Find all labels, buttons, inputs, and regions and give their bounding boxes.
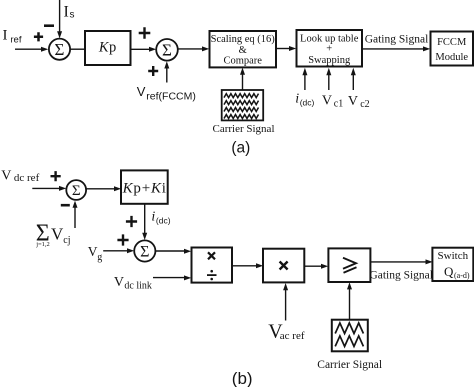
label plus above S2 (139, 27, 151, 39)
carrier a zigzag row 4 (224, 115, 259, 119)
svg-text:Scaling eq (16): Scaling eq (16) (211, 34, 276, 45)
wire KpKi-S4 arrowhead (142, 233, 147, 240)
wire carrier b to geq (349, 289, 351, 320)
svg-text:I: I (3, 28, 8, 44)
wire Kp to S2 (131, 48, 150, 50)
wire carrier-b arrowhead (347, 282, 352, 289)
svg-text:(dc): (dc) (156, 215, 171, 225)
carrier signal box b (332, 320, 368, 352)
svg-text:g: g (97, 252, 102, 263)
svg-text:Switch: Switch (438, 250, 469, 262)
label plus upper at S4 (126, 216, 137, 227)
svg-text:j=1,2: j=1,2 (35, 241, 50, 248)
svg-text:V: V (114, 275, 124, 290)
wire KpKi down to S4 (144, 204, 146, 234)
label minus at S1 (44, 24, 54, 27)
wire Vdcref arrowhead (59, 186, 66, 191)
svg-text:i: i (151, 209, 155, 224)
svg-text:(a): (a) (231, 140, 250, 157)
wire Iref arrowhead (41, 47, 48, 52)
multiply sign in multiplier (280, 262, 288, 270)
wire Vc1 input (328, 75, 330, 91)
svg-text:ref(FCCM): ref(FCCM) (146, 91, 196, 103)
wire lookup to FCCM gating signal (362, 48, 423, 50)
summing junction S4 (134, 240, 155, 261)
wire Vg arrowhead (127, 248, 134, 253)
wire idc input a (304, 75, 306, 91)
svg-text:dc ref: dc ref (14, 172, 40, 184)
svg-text:V: V (348, 94, 358, 109)
wire carrier-a arrowhead (240, 68, 245, 75)
wire Vdclink arrowhead (184, 275, 191, 280)
wire Vc2 input (352, 75, 354, 91)
wire scaling-lookup arrowhead (289, 46, 296, 51)
wire mul-geq arrowhead (321, 264, 328, 269)
svg-text:Kp: Kp (98, 40, 117, 56)
svg-text:c1: c1 (334, 99, 343, 110)
svg-text:ac ref: ac ref (280, 330, 305, 342)
wire Vacref arrowhead (283, 283, 288, 290)
svg-text:V: V (137, 84, 146, 99)
svg-text:c2: c2 (360, 99, 369, 110)
label plus below S2 (148, 66, 158, 76)
block FCCM module (431, 32, 474, 66)
carrier a zigzag row 2 (224, 101, 259, 105)
wire S2 to scaling block (178, 48, 203, 50)
block Kp+Ki (121, 170, 168, 203)
block multiplier (263, 249, 304, 283)
carrier b triangle row 2 (335, 336, 363, 347)
wire S4 to muldiv (156, 250, 185, 252)
wire Vref(FCCM) input (166, 68, 168, 83)
svg-text:V: V (1, 168, 11, 183)
svg-text:dc link: dc link (124, 280, 151, 291)
multiply sign in muldiv (208, 252, 215, 259)
wire Vc1 arrowhead (326, 68, 331, 75)
wire Vc2 arrowhead (351, 68, 356, 75)
block switch (432, 248, 473, 281)
wire S1 to Kp (70, 48, 85, 50)
svg-text:s: s (70, 10, 75, 21)
wire muldiv-mul arrowhead (256, 263, 263, 268)
svg-text:Swapping: Swapping (308, 55, 351, 66)
wire Vacref input (285, 290, 287, 321)
geq symbol (343, 258, 357, 273)
svg-text:Gating Signal: Gating Signal (369, 269, 433, 281)
wire Vref arrowhead (164, 61, 169, 68)
wire lookup-FCCM arrowhead (423, 46, 430, 51)
wire muldiv to mul (232, 265, 256, 267)
svg-text:Module: Module (435, 52, 468, 63)
svg-text:Gating Signal: Gating Signal (365, 33, 429, 45)
block multiply divide (192, 248, 233, 283)
svg-text:&: & (239, 45, 247, 56)
svg-text:Kp+Ki: Kp+Ki (122, 181, 167, 197)
wire Vg to S4 (103, 250, 127, 252)
wire S2-scaling arrowhead (202, 46, 209, 51)
wire S3-KpKi arrowhead (114, 186, 121, 191)
label plus at Vdcref (51, 171, 61, 181)
wire carrier a to scaling (242, 74, 244, 90)
wire Vdclink input (153, 277, 185, 279)
svg-text:i: i (295, 92, 299, 107)
svg-text:+: + (326, 44, 332, 55)
label plus at Iref (34, 32, 43, 41)
svg-text:V: V (322, 94, 332, 109)
wire scaling to lookup (276, 48, 289, 50)
block lookup table (297, 30, 363, 67)
summing junction S3 (66, 180, 86, 200)
svg-text:Carrier Signal: Carrier Signal (317, 359, 382, 371)
wire Iref input (15, 48, 42, 50)
wire geq-switch arrowhead (426, 259, 433, 264)
wire geq to switch gating signal (371, 261, 426, 263)
summing junction S2 (156, 39, 178, 61)
label plus lower at S4 (117, 234, 128, 245)
wire Kp-S2 arrowhead (149, 47, 156, 52)
wire mul to geq (305, 265, 322, 267)
wire sumVcj arrowhead (73, 201, 78, 208)
svg-text:Σ: Σ (55, 40, 65, 59)
block comparator geq (328, 248, 370, 282)
svg-text:ref: ref (10, 34, 21, 45)
block Kp (85, 31, 131, 65)
carrier a zigzag row 3 (224, 108, 259, 112)
carrier b triangle row 1 (335, 323, 363, 334)
svg-text:Σ: Σ (162, 41, 172, 60)
svg-text:V: V (88, 244, 98, 259)
svg-text:V: V (51, 225, 64, 244)
wire Vdcref input (32, 187, 59, 189)
wire idc arrowhead a (302, 68, 307, 75)
svg-text:Σ: Σ (72, 183, 81, 199)
summing junction S1 (49, 39, 70, 60)
svg-text:I: I (64, 4, 69, 21)
svg-text:(b): (b) (232, 369, 253, 387)
svg-text:Q: Q (444, 264, 454, 279)
block scaling eq (16) & compare (210, 31, 277, 67)
wire Is arrowhead (57, 31, 62, 38)
divide sign in muldiv (207, 274, 217, 276)
wire S3 to KpKi (86, 188, 114, 190)
carrier signal box a (222, 90, 264, 120)
svg-text:cj: cj (63, 235, 70, 246)
wire Is input (59, 0, 61, 32)
svg-text:Σ: Σ (140, 243, 149, 260)
wire sum Vcj to S3 (74, 207, 76, 228)
divide sign dots (210, 271, 213, 279)
carrier a zigzag row 1 (224, 94, 259, 98)
svg-text:(a-d): (a-d) (454, 271, 470, 280)
svg-text:(dc): (dc) (300, 98, 315, 108)
svg-text:Compare: Compare (223, 55, 262, 66)
wire S4-muldiv arrowhead (184, 249, 191, 254)
svg-text:FCCM: FCCM (437, 37, 467, 48)
svg-text:Carrier Signal: Carrier Signal (212, 123, 274, 135)
label minus at S3 (61, 204, 70, 207)
